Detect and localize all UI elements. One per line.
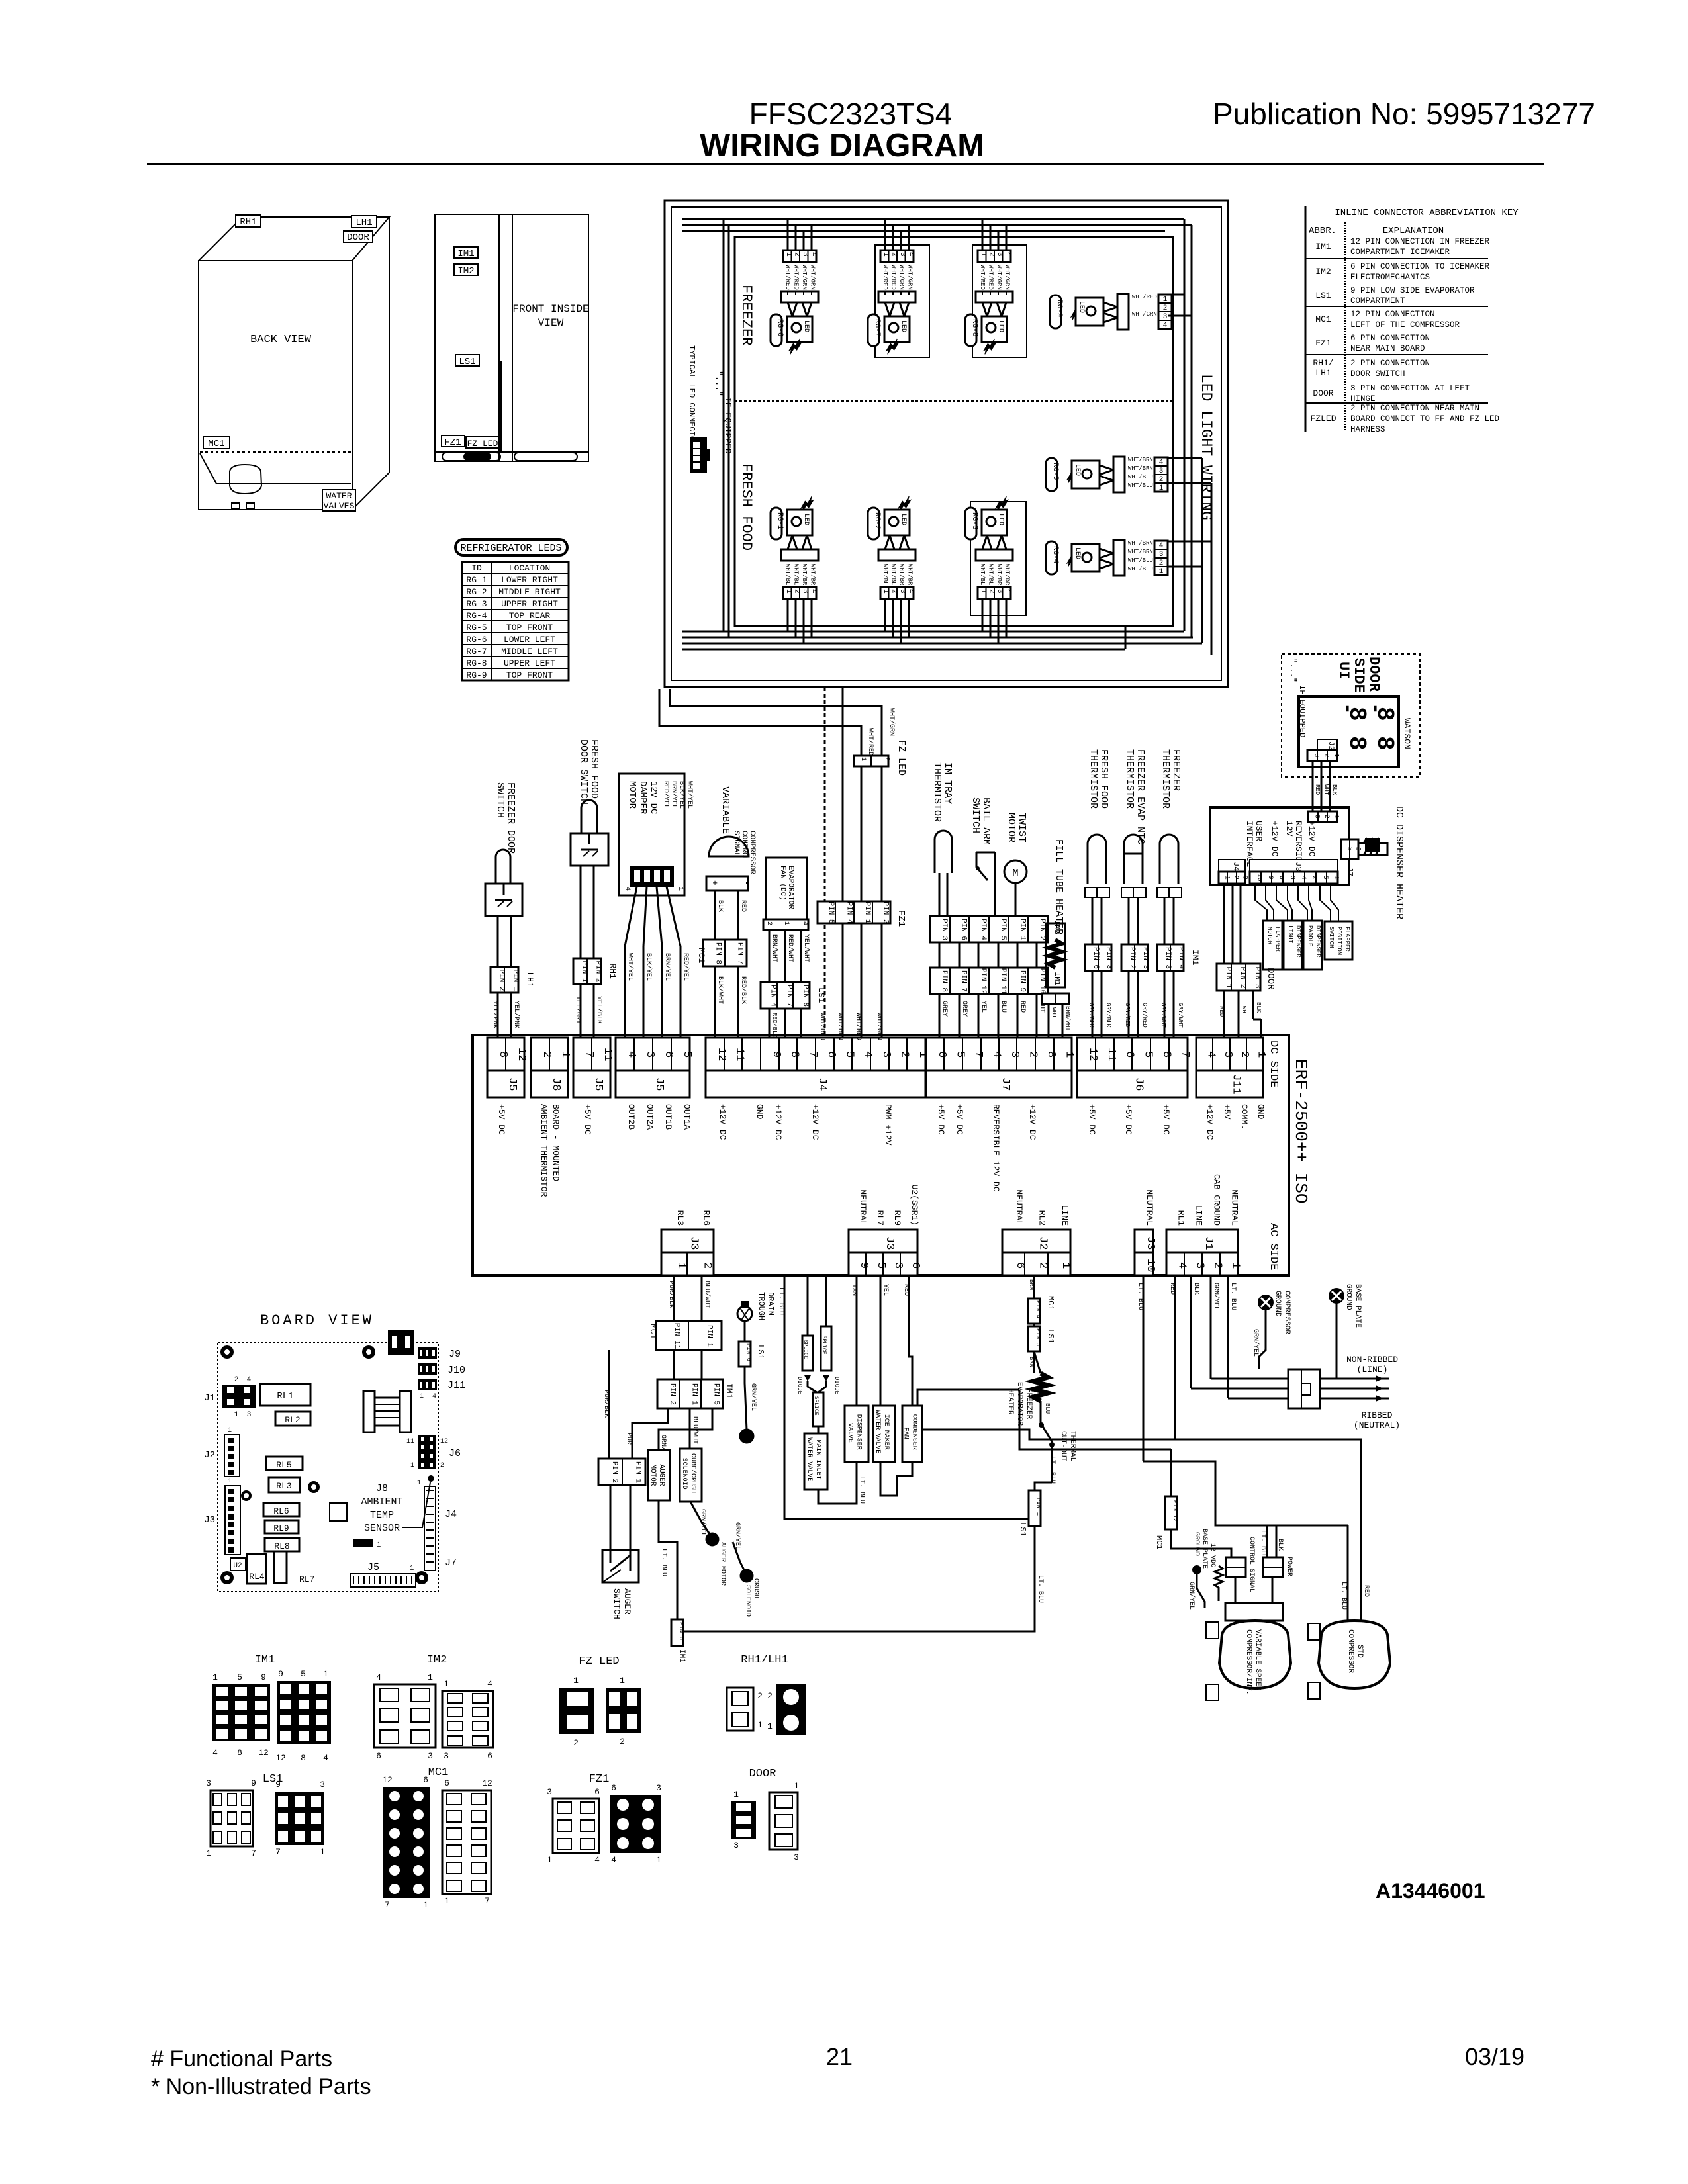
svg-text:MC1: MC1 xyxy=(696,948,706,964)
top power connector xyxy=(388,1330,414,1355)
svg-text:RIBBED: RIBBED xyxy=(1362,1410,1393,1420)
svg-text:PIN 8: PIN 8 xyxy=(940,970,948,992)
svg-text:4: 4 xyxy=(247,1376,252,1384)
svg-text:OUT2A: OUT2A xyxy=(645,1104,655,1130)
svg-text:2: 2 xyxy=(793,252,801,257)
svg-text:WHT/GRN: WHT/GRN xyxy=(1004,265,1011,290)
svg-text:FRESH FOOD: FRESH FOOD xyxy=(588,739,600,799)
svg-text:WIRING DIAGRAM: WIRING DIAGRAM xyxy=(700,128,984,163)
label LH1 xyxy=(352,216,377,228)
long runs to compressors xyxy=(1175,1439,1361,1621)
front view bottom led strips xyxy=(442,453,500,461)
svg-text:UPPER RIGHT: UPPER RIGHT xyxy=(501,599,558,609)
svg-text:DISPENSER: DISPENSER xyxy=(1315,925,1321,958)
svg-text:WATER VALVE: WATER VALVE xyxy=(874,1410,881,1453)
svg-text:PIN 7: PIN 7 xyxy=(960,970,968,992)
wire LS1 pin1 to IM1 pin6 xyxy=(683,1526,1035,1631)
svg-text:1: 1 xyxy=(784,589,792,594)
svg-text:REFRIGERATOR LEDS: REFRIGERATOR LEDS xyxy=(460,543,561,554)
svg-text:DIODE: DIODE xyxy=(833,1377,840,1394)
svg-text:RED/YEL: RED/YEL xyxy=(682,953,690,981)
svg-text:A13446001: A13446001 xyxy=(1376,1879,1485,1903)
svg-text:SWITCH: SWITCH xyxy=(1328,927,1335,948)
svg-text:2: 2 xyxy=(1232,876,1239,880)
svg-text:COMM.: COMM. xyxy=(1239,1104,1249,1130)
svg-text:LS1: LS1 xyxy=(756,1345,765,1359)
svg-text:RL9: RL9 xyxy=(273,1524,289,1533)
svg-text:5: 5 xyxy=(1321,876,1329,880)
typical led connector icon xyxy=(690,437,707,473)
splice diode network xyxy=(807,1275,809,1336)
svg-text:LED: LED xyxy=(900,514,907,525)
svg-text:WHT/RED: WHT/RED xyxy=(867,728,874,756)
svg-text:PIN 1: PIN 1 xyxy=(1035,1498,1042,1516)
svg-text:1: 1 xyxy=(1333,876,1340,880)
label pill RG-6 xyxy=(771,314,782,346)
svg-text:STD: STD xyxy=(1356,1645,1364,1658)
svg-text:DOOR SWITCH: DOOR SWITCH xyxy=(1350,369,1405,379)
led box right side wires xyxy=(1184,219,1186,631)
svg-text:FZ1: FZ1 xyxy=(896,910,906,927)
main board ERF-2500 outline xyxy=(473,1035,1289,1275)
svg-text:DISPENSER: DISPENSER xyxy=(855,1414,863,1450)
svg-text:WHT/GRN: WHT/GRN xyxy=(1132,311,1157,318)
svg-text:3: 3 xyxy=(206,1778,211,1788)
svg-text:SIGNAL: SIGNAL xyxy=(732,831,740,857)
svg-text:CONDENSER: CONDENSER xyxy=(911,1414,918,1450)
label FZ LED xyxy=(466,437,499,448)
svg-text:8: 8 xyxy=(1160,1051,1172,1058)
svg-text:2: 2 xyxy=(883,757,890,761)
svg-text:REVERSIBLE 12V DC: REVERSIBLE 12V DC xyxy=(991,1104,1001,1192)
svg-text:1: 1 xyxy=(757,1720,763,1730)
back view box front face xyxy=(199,261,352,510)
svg-text:LOCATION: LOCATION xyxy=(509,563,550,573)
svg-text:J3: J3 xyxy=(204,1515,215,1525)
svg-text:WHT/BRN: WHT/BRN xyxy=(810,564,816,589)
svg-text:6: 6 xyxy=(909,1262,921,1269)
svg-text:6: 6 xyxy=(1123,1051,1136,1058)
board J6 connector xyxy=(418,1435,436,1469)
svg-text:4: 4 xyxy=(1004,589,1012,594)
svg-text:6: 6 xyxy=(935,1051,948,1058)
svg-text:RL7: RL7 xyxy=(299,1574,314,1584)
U2 xyxy=(230,1558,246,1570)
svg-text:PIN 3: PIN 3 xyxy=(940,919,948,940)
svg-text:IM TRAY: IM TRAY xyxy=(942,762,953,804)
svg-text:PIN 5: PIN 5 xyxy=(712,1383,720,1405)
svg-text:12V DC: 12V DC xyxy=(648,781,659,814)
svg-text:GRN/YEL: GRN/YEL xyxy=(733,1522,741,1550)
control signal connector xyxy=(1226,1557,1246,1577)
svg-text:RG-8: RG-8 xyxy=(970,319,978,336)
svg-text:3: 3 xyxy=(996,589,1004,594)
svg-text:GRN/YEL: GRN/YEL xyxy=(1252,1329,1260,1357)
svg-text:PIN 12: PIN 12 xyxy=(979,968,987,995)
svg-text:BLK: BLK xyxy=(1276,1539,1284,1551)
svg-text:1: 1 xyxy=(1159,568,1164,576)
svg-text:9: 9 xyxy=(857,1262,870,1269)
svg-text:+12V DC: +12V DC xyxy=(1027,1104,1037,1140)
svg-text:FILL TUBE HEATER: FILL TUBE HEATER xyxy=(1053,839,1064,934)
svg-text:MIDDLE RIGHT: MIDDLE RIGHT xyxy=(498,587,561,597)
svg-text:LED: LED xyxy=(997,514,1004,525)
svg-text:WHT: WHT xyxy=(1051,1007,1057,1019)
svg-text:6: 6 xyxy=(423,1775,428,1785)
wires to auger motor cluster xyxy=(608,1350,610,1459)
svg-text:RG-9: RG-9 xyxy=(1055,300,1063,317)
svg-text:FZLED: FZLED xyxy=(1310,414,1336,424)
svg-text:7: 7 xyxy=(1178,1051,1191,1058)
svg-text:SOLENOID: SOLENOID xyxy=(680,1458,688,1490)
svg-text:PIN 4: PIN 4 xyxy=(1177,947,1185,969)
J2 connector on watson xyxy=(1317,739,1337,750)
svg-text:USER: USER xyxy=(1254,821,1264,841)
svg-text:ELECTROMECHANICS: ELECTROMECHANICS xyxy=(1350,273,1430,282)
svg-text:SWITCH: SWITCH xyxy=(494,782,506,818)
LS1 pin6 inline xyxy=(739,1342,751,1367)
svg-text:NEUTRAL: NEUTRAL xyxy=(1230,1189,1240,1226)
svg-text:BRN: BRN xyxy=(1028,1279,1035,1290)
LED module RG-7 xyxy=(878,219,915,354)
LED module RG-5 xyxy=(1046,457,1168,492)
label pill RG-7 xyxy=(868,314,879,346)
svg-text:TOP FRONT: TOP FRONT xyxy=(506,670,553,680)
wires std compressor xyxy=(1215,1525,1348,1527)
svg-text:LOWER RIGHT: LOWER RIGHT xyxy=(501,575,558,585)
svg-text:-: - xyxy=(1364,703,1386,715)
svg-text:ABBR.: ABBR. xyxy=(1309,226,1336,236)
svg-text:YEL/PNK: YEL/PNK xyxy=(491,1001,499,1028)
svg-text:2: 2 xyxy=(757,1691,763,1701)
svg-text:RG-2: RG-2 xyxy=(873,512,881,529)
svg-text:9: 9 xyxy=(261,1672,266,1682)
condenser fan wires right xyxy=(917,1390,1019,1406)
svg-text:1: 1 xyxy=(377,1541,381,1549)
board J5 connector xyxy=(350,1574,416,1587)
svg-text:J11: J11 xyxy=(1230,1074,1243,1095)
svg-text:RED: RED xyxy=(1168,1283,1176,1295)
svg-text:LS1: LS1 xyxy=(459,357,475,367)
svg-text:PIN 1: PIN 1 xyxy=(633,1461,641,1483)
svg-text:J3: J3 xyxy=(883,1236,896,1250)
svg-text:BACK VIEW: BACK VIEW xyxy=(250,334,312,346)
svg-text:+12V DC: +12V DC xyxy=(1205,1104,1215,1140)
board view outline xyxy=(218,1342,438,1592)
svg-text:BLK: BLK xyxy=(1255,1002,1262,1013)
svg-text:+5V DC: +5V DC xyxy=(1087,1104,1097,1135)
svg-text:WHT/BRN: WHT/BRN xyxy=(1128,457,1153,463)
svg-text:RL8: RL8 xyxy=(274,1541,289,1551)
svg-text:AMBIENT: AMBIENT xyxy=(361,1496,402,1508)
svg-text:RL6: RL6 xyxy=(273,1506,289,1516)
svg-text:PIN 11: PIN 11 xyxy=(673,1323,680,1349)
connector J7 pins 6/5/7/4/3/2/8/1 xyxy=(926,1038,1072,1071)
svg-text:2: 2 xyxy=(1323,753,1330,757)
relay RL7 xyxy=(274,1544,287,1583)
svg-text:3: 3 xyxy=(733,1841,739,1850)
svg-text:4: 4 xyxy=(611,1855,616,1865)
svg-text:LS1: LS1 xyxy=(1046,1329,1055,1343)
svg-text:FZ LED: FZ LED xyxy=(467,439,498,449)
label LS1 xyxy=(455,355,479,366)
svg-text:PIN 1: PIN 1 xyxy=(1019,919,1027,940)
dispenser valve xyxy=(845,1406,868,1462)
svg-text:CRUSH: CRUSH xyxy=(752,1578,759,1598)
svg-text:3: 3 xyxy=(1241,876,1248,880)
auger pin2/pin1 inline xyxy=(598,1459,645,1485)
back view box top face xyxy=(199,217,389,261)
svg-text:8: 8 xyxy=(237,1748,242,1758)
svg-text:LS1: LS1 xyxy=(1315,291,1331,300)
svg-text:3: 3 xyxy=(656,1783,661,1793)
svg-text:12V: 12V xyxy=(1284,821,1294,837)
svg-text:4: 4 xyxy=(1004,252,1012,257)
svg-text:LH1: LH1 xyxy=(525,972,535,988)
svg-text:1: 1 xyxy=(234,1411,239,1419)
svg-text:# Functional Parts: # Functional Parts xyxy=(151,2046,332,2071)
svg-text:PIN 6: PIN 6 xyxy=(745,1343,752,1361)
svg-text:+: + xyxy=(710,880,720,886)
svg-text:RL7: RL7 xyxy=(875,1210,885,1226)
svg-text:WHT/RED: WHT/RED xyxy=(988,265,994,290)
svg-text:J8: J8 xyxy=(549,1077,562,1091)
svg-text:J4: J4 xyxy=(445,1509,457,1520)
svg-text:MC1: MC1 xyxy=(1046,1296,1055,1310)
svg-text:OUT1A: OUT1A xyxy=(682,1104,692,1130)
svg-text:U2(SSR1): U2(SSR1) xyxy=(910,1185,919,1226)
svg-text:-: - xyxy=(741,880,751,886)
svg-text:1: 1 xyxy=(228,1427,232,1434)
LED module RG-2 xyxy=(878,496,915,643)
svg-text:RL4: RL4 xyxy=(249,1572,265,1582)
svg-text:1: 1 xyxy=(882,252,890,257)
svg-text:8: 8 xyxy=(1371,736,1398,751)
svg-text:2 PIN CONNECTION: 2 PIN CONNECTION xyxy=(1350,359,1430,368)
svg-text:FREEZER EVAP NTC: FREEZER EVAP NTC xyxy=(1135,749,1146,844)
svg-text:LT. BLU: LT. BLU xyxy=(660,1549,667,1576)
svg-text:FRESH FOOD: FRESH FOOD xyxy=(738,463,755,551)
svg-text:3: 3 xyxy=(1313,753,1320,757)
svg-text:WHT/GRN: WHT/GRN xyxy=(810,265,816,290)
svg-text:LEFT OF THE COMPRESSOR: LEFT OF THE COMPRESSOR xyxy=(1350,320,1460,330)
svg-text:12: 12 xyxy=(515,1048,528,1061)
svg-text:4: 4 xyxy=(376,1672,381,1682)
svg-text:SPLICE: SPLICE xyxy=(813,1396,819,1416)
wire WHT/BRN down xyxy=(842,687,844,1038)
connector J6 pins 12/11/6/5/8/7 xyxy=(1077,1038,1188,1071)
svg-text:HARNESS: HARNESS xyxy=(1350,425,1385,434)
svg-text:4: 4 xyxy=(907,252,915,257)
svg-text:FZ1: FZ1 xyxy=(444,437,461,448)
svg-text:3: 3 xyxy=(1221,1051,1234,1058)
svg-text:8: 8 xyxy=(301,1753,306,1763)
svg-text:RH1: RH1 xyxy=(240,217,256,228)
svg-text:IM1: IM1 xyxy=(255,1654,275,1666)
svg-text:RH1/: RH1/ xyxy=(1313,358,1333,368)
svg-text:J10: J10 xyxy=(447,1365,465,1376)
svg-text:WHT/RED: WHT/RED xyxy=(793,265,800,290)
svg-text:6: 6 xyxy=(611,1783,616,1793)
svg-text:6 PIN CONNECTION TO ICEMAKER: 6 PIN CONNECTION TO ICEMAKER xyxy=(1350,262,1490,271)
svg-text:COMPRESSOR: COMPRESSOR xyxy=(748,831,756,874)
svg-text:J2: J2 xyxy=(1327,741,1335,750)
connector J4 pins 12/11/9/8/7/6/5/4/3/2/1 xyxy=(706,1038,925,1071)
svg-text:PIN 2: PIN 2 xyxy=(881,902,889,924)
svg-text:TAN: TAN xyxy=(850,1284,857,1296)
svg-text:WHT/GRN: WHT/GRN xyxy=(888,708,896,736)
svg-text:COMPRESSOR: COMPRESSOR xyxy=(1346,1629,1354,1673)
svg-text:RG-7: RG-7 xyxy=(466,647,487,657)
svg-text:11: 11 xyxy=(406,1438,414,1445)
svg-text:AUGER MOTOR: AUGER MOTOR xyxy=(719,1542,726,1586)
svg-text:1: 1 xyxy=(410,1565,414,1572)
RG-3 enclosure xyxy=(970,502,1026,615)
svg-text:PIN 6: PIN 6 xyxy=(960,919,968,940)
connector J8 pins 2/1 xyxy=(531,1038,568,1071)
svg-text:3: 3 xyxy=(892,1262,904,1269)
svg-text:GROUND: GROUND xyxy=(1193,1532,1200,1556)
svg-text:10: 10 xyxy=(1144,1259,1156,1272)
left side bus wires xyxy=(723,219,725,631)
svg-text:LH1: LH1 xyxy=(1315,368,1331,378)
label DOOR xyxy=(344,231,373,242)
cube/crush solenoid xyxy=(680,1449,702,1502)
base plate ground xyxy=(1329,1288,1344,1304)
svg-text:8: 8 xyxy=(1045,1051,1057,1058)
svg-text:PIN 5: PIN 5 xyxy=(827,902,835,924)
svg-text:WHT/RED: WHT/RED xyxy=(855,1013,863,1040)
svg-text:J1: J1 xyxy=(204,1393,215,1404)
relay RL9 xyxy=(265,1520,299,1533)
svg-text:IM2: IM2 xyxy=(427,1654,447,1666)
svg-text:RED: RED xyxy=(902,1284,910,1296)
wire WHT/GRN fz led feed xyxy=(670,689,882,756)
svg-text:7: 7 xyxy=(251,1848,256,1858)
svg-text:2: 2 xyxy=(988,252,996,257)
svg-text:WHT/BLU: WHT/BLU xyxy=(1128,474,1153,480)
svg-text:4: 4 xyxy=(624,887,631,891)
svg-text:RG-4: RG-4 xyxy=(466,611,487,621)
board J4/J7 connector strip xyxy=(424,1486,436,1570)
svg-text:4: 4 xyxy=(625,1051,637,1058)
svg-text:+12V DC: +12V DC xyxy=(1307,821,1317,857)
svg-text:8: 8 xyxy=(496,1051,509,1058)
svg-text:7: 7 xyxy=(583,1051,595,1058)
svg-text:J5: J5 xyxy=(592,1077,604,1091)
svg-text:1: 1 xyxy=(573,1676,579,1686)
IM1 pin2/pin1/pin5 inline xyxy=(657,1379,723,1408)
svg-text:FREEZER DOOR: FREEZER DOOR xyxy=(505,782,516,854)
svg-text:PIN 3: PIN 3 xyxy=(1105,947,1113,969)
svg-text:LED: LED xyxy=(1074,464,1081,476)
svg-text:-: - xyxy=(1336,703,1358,715)
svg-text:LT. BLU: LT. BLU xyxy=(1037,1575,1044,1603)
svg-text:7: 7 xyxy=(385,1900,390,1910)
svg-text:2: 2 xyxy=(440,1462,444,1469)
relay RL1 xyxy=(260,1384,310,1406)
wire PUR/BLK from J3 pin1 xyxy=(673,1275,675,1321)
svg-text:VALVE: VALVE xyxy=(847,1423,854,1443)
IM2 inline pin strip xyxy=(930,916,1048,942)
svg-text:U2: U2 xyxy=(233,1562,242,1570)
svg-text:WHT/RED: WHT/RED xyxy=(784,265,791,290)
small header xyxy=(353,1539,373,1547)
svg-text:RG-5: RG-5 xyxy=(466,623,487,633)
svg-text:J2: J2 xyxy=(1037,1236,1049,1250)
svg-text:CUBE/CRUSH: CUBE/CRUSH xyxy=(689,1453,697,1493)
svg-text:WHT: WHT xyxy=(1241,1006,1247,1017)
svg-text:4: 4 xyxy=(212,1748,218,1758)
svg-text:J5: J5 xyxy=(653,1077,665,1091)
svg-text:J8: J8 xyxy=(376,1483,388,1494)
svg-text:5: 5 xyxy=(301,1669,306,1679)
svg-text:RG-3: RG-3 xyxy=(466,599,487,609)
svg-text:LT. BLU: LT. BLU xyxy=(1259,1530,1266,1558)
compressor xyxy=(230,465,261,494)
svg-text:GROUND: GROUND xyxy=(1274,1291,1282,1317)
svg-text:3: 3 xyxy=(801,589,809,594)
svg-text:1: 1 xyxy=(212,1672,218,1682)
svg-text:2: 2 xyxy=(1037,1262,1049,1269)
svg-text:RL2: RL2 xyxy=(285,1415,300,1425)
svg-text:IM1: IM1 xyxy=(1315,242,1331,251)
connector J3 pins 1/2 xyxy=(661,1230,714,1253)
svg-text:WHT/BRN: WHT/BRN xyxy=(1128,465,1153,472)
svg-text:PIN 3: PIN 3 xyxy=(1253,967,1261,989)
svg-text:SWITCH: SWITCH xyxy=(612,1588,622,1619)
svg-text:2: 2 xyxy=(988,589,996,594)
svg-text:WHT/BRN: WHT/BRN xyxy=(1004,564,1011,589)
svg-text:Publication No: 5995713277: Publication No: 5995713277 xyxy=(1213,97,1595,131)
svg-text:THERMISTOR: THERMISTOR xyxy=(1088,749,1099,809)
svg-text:2: 2 xyxy=(890,252,898,257)
svg-text:1: 1 xyxy=(767,1721,773,1731)
svg-text:WHT/BRN: WHT/BRN xyxy=(907,564,914,589)
label pill RG-1 xyxy=(771,508,782,539)
svg-text:J3: J3 xyxy=(1293,862,1303,871)
svg-text:6: 6 xyxy=(594,1787,600,1797)
svg-text:7: 7 xyxy=(972,1051,984,1058)
svg-text:PIN 2: PIN 2 xyxy=(594,961,602,983)
svg-text:BOARD VIEW: BOARD VIEW xyxy=(260,1312,374,1329)
back view box right face xyxy=(352,217,389,510)
svg-text:MAIN INLET: MAIN INLET xyxy=(814,1440,821,1480)
header rule xyxy=(147,163,1544,165)
svg-text:BASE PLATE: BASE PLATE xyxy=(1201,1529,1208,1569)
svg-text:THERMAL: THERMAL xyxy=(1068,1431,1076,1461)
svg-text:GRN/YEL: GRN/YEL xyxy=(749,1383,757,1411)
svg-text:RG-3: RG-3 xyxy=(970,512,978,529)
wires from AC connectors down right xyxy=(1143,1275,1145,1461)
svg-text:SWITCH: SWITCH xyxy=(970,797,981,833)
svg-text:WHT/BLU: WHT/BLU xyxy=(1128,482,1153,489)
connector J3 pins 9/5/3/6 xyxy=(849,1230,917,1253)
connector J2 pins 6/2/1 xyxy=(1002,1230,1070,1253)
svg-text:3: 3 xyxy=(547,1787,552,1797)
svg-text:LED: LED xyxy=(997,320,1004,332)
svg-text:WHT/BRN: WHT/BRN xyxy=(996,564,1002,589)
wire BLU/WHT from J3 pin2 xyxy=(701,1275,703,1321)
UI J7 connector and DC dispenser heater xyxy=(1341,839,1358,859)
svg-text:11: 11 xyxy=(733,1048,746,1061)
svg-text:DAMPER: DAMPER xyxy=(637,781,648,815)
svg-text:+5V DC: +5V DC xyxy=(1161,1104,1171,1135)
svg-text:3: 3 xyxy=(880,1051,892,1058)
svg-text:(NEUTRAL): (NEUTRAL) xyxy=(1354,1420,1400,1430)
svg-text:1: 1 xyxy=(675,1262,687,1269)
svg-text:MC1: MC1 xyxy=(1315,314,1331,324)
